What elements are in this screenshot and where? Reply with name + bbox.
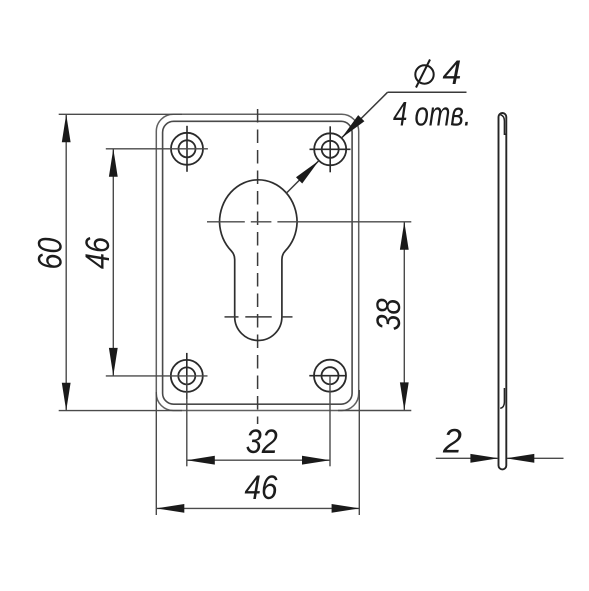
leader line for hole callout <box>286 92 388 193</box>
svg-text:46: 46 <box>245 469 278 507</box>
hole bottom-right <box>309 360 346 392</box>
side view outline <box>499 113 507 469</box>
svg-text:4 отв.: 4 отв. <box>393 96 471 134</box>
side view rim edge bottom <box>500 388 504 408</box>
dimension 46 (bottom outer, horizontal, plate width) <box>156 390 359 515</box>
side view rim edge top <box>500 115 506 135</box>
svg-text:4: 4 <box>443 54 462 92</box>
plate outer contour <box>156 114 358 410</box>
hole top-left <box>171 126 203 172</box>
dimension 32 (bottom inner, horizontal, hole spacing) <box>187 376 330 467</box>
callout shelf line <box>388 91 467 93</box>
keyhole cutout <box>220 180 298 341</box>
dimension 38 (right, vertical) <box>338 222 411 411</box>
label diameter 4 <box>415 54 461 92</box>
svg-text:32: 32 <box>246 423 278 461</box>
keyhole circle horizontal centerline / extension line for 38 <box>207 221 245 223</box>
svg-text:60: 60 <box>32 237 70 269</box>
hole bottom-left <box>171 353 203 399</box>
dimension 2 (thickness) <box>436 423 564 463</box>
hole top-right <box>310 126 351 172</box>
plate inner rim contour <box>163 121 353 404</box>
vertical dashed centerline <box>257 109 259 424</box>
dimension 60 (left outer, vertical) <box>32 114 183 410</box>
dimension 46 (left inner, vertical, hole spacing) <box>79 149 208 376</box>
svg-text:46: 46 <box>79 237 117 269</box>
keyhole slot bottom center tick <box>225 316 239 318</box>
svg-text:38: 38 <box>370 298 408 330</box>
svg-text:2: 2 <box>442 423 462 461</box>
